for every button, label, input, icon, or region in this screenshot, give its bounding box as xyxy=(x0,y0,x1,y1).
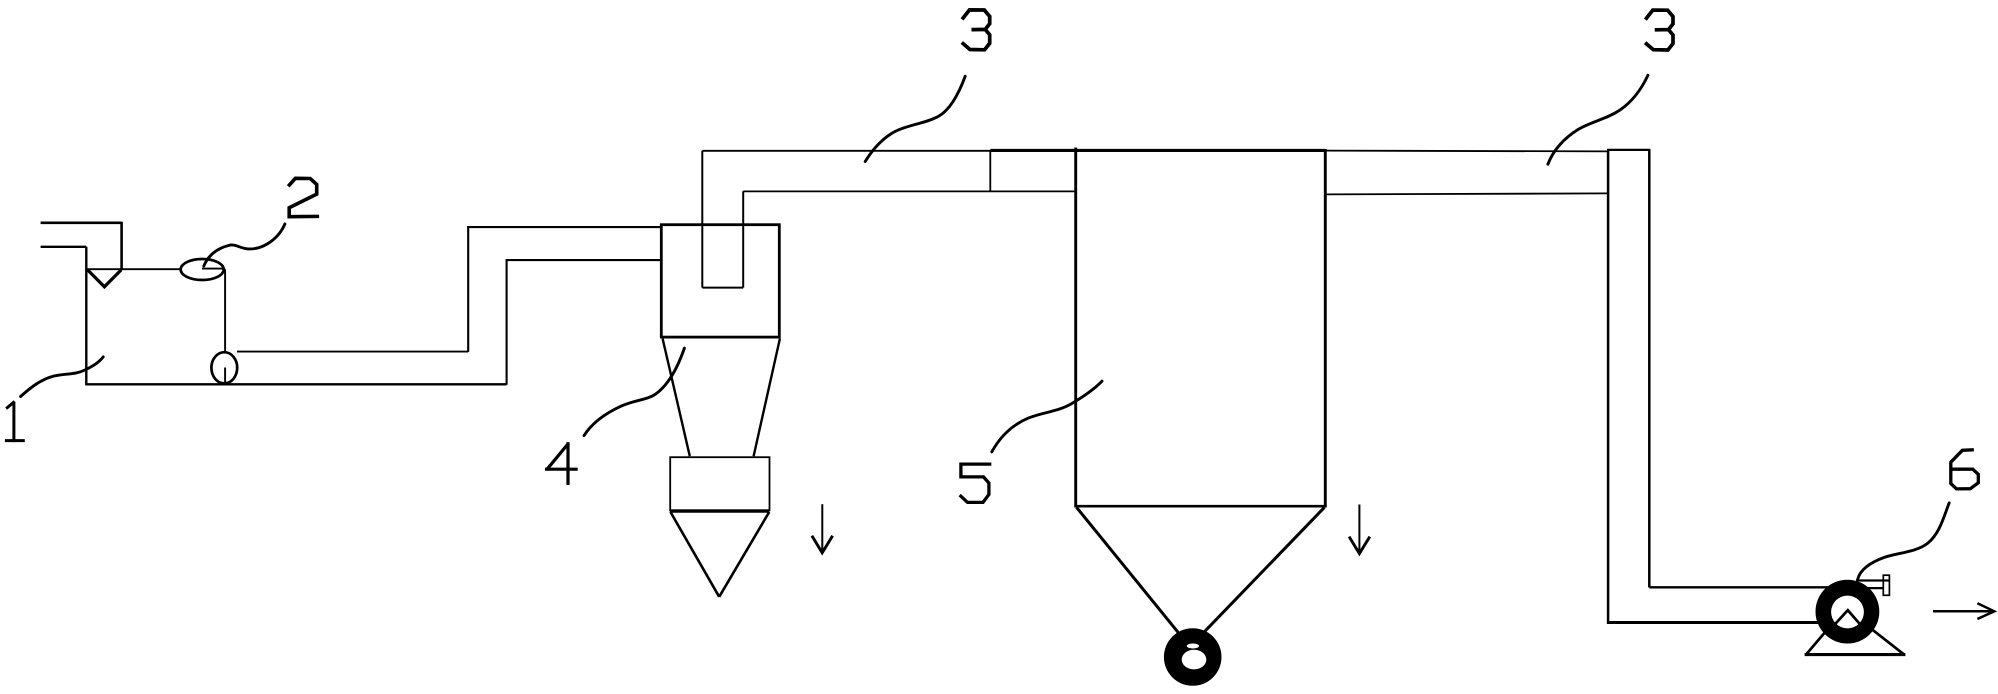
leader line for 4 xyxy=(584,348,684,436)
valve ellipse 2 on box top xyxy=(181,259,224,280)
leader line for second 3 xyxy=(1548,75,1648,164)
label 3 (second) xyxy=(1647,10,1674,50)
label 5 xyxy=(961,464,990,502)
pipe 3 top line xyxy=(237,351,468,353)
fan 6 body xyxy=(1816,580,1880,644)
cyclone cone left xyxy=(663,339,690,457)
label 1 xyxy=(6,402,23,440)
leader line for 5 xyxy=(992,381,1102,452)
rotary valve wheel under hopper xyxy=(1164,628,1222,686)
fan base left slant xyxy=(1806,617,1838,655)
leader line for 6 xyxy=(1858,503,1949,579)
cyclone vortex tube bottom cap xyxy=(702,287,743,289)
cyclone vortex tube left xyxy=(701,151,703,288)
duct 3 top line baghouse to riser xyxy=(1326,150,1609,153)
duct 3 bottom line cyclone to baghouse xyxy=(743,190,1074,192)
bottom wire: box bottom + pipe 3 bottom line xyxy=(85,383,506,385)
riser inner top horizontal xyxy=(506,259,661,261)
cyclone cone right xyxy=(754,339,780,457)
inlet elbow top line xyxy=(41,222,122,225)
leader line for first 3 xyxy=(865,76,965,161)
label 3 (first) xyxy=(963,10,990,50)
fan base right slant xyxy=(1860,620,1904,655)
label 4 xyxy=(547,444,577,484)
right riser top cap xyxy=(1607,149,1650,151)
cyclone vortex tube right xyxy=(742,191,744,287)
exit arrow xyxy=(1933,603,1994,619)
fan outlet stub bottom line xyxy=(1857,587,1883,589)
hopper right slant xyxy=(1204,507,1325,632)
baghouse 5 right edge xyxy=(1324,149,1327,506)
cyclone discharge triangle xyxy=(670,512,770,597)
baghouse 5 bottom edge xyxy=(1074,505,1326,508)
feed box 1 top edge xyxy=(86,268,225,270)
duct 3 top line cyclone to flange xyxy=(702,150,990,152)
fan outlet stub top line xyxy=(1856,579,1890,581)
cyclone collection box xyxy=(670,457,769,510)
riser outer top horizontal xyxy=(467,226,661,228)
duct 3 bottom line baghouse to riser xyxy=(1326,193,1609,194)
leader line for 2 xyxy=(204,224,285,266)
leader line for 1 xyxy=(21,357,104,397)
cyclone 4 body xyxy=(661,225,779,337)
fan base bottom xyxy=(1805,653,1906,656)
right riser left vertical xyxy=(1607,150,1610,623)
hopper left slant xyxy=(1077,507,1181,635)
label 6 xyxy=(1951,450,1979,489)
feed box 1 left edge xyxy=(85,247,87,385)
bottom duct top line to fan xyxy=(1649,586,1830,588)
riser inner vertical xyxy=(506,259,508,385)
inlet elbow right vertical xyxy=(120,222,123,270)
feed box 1 right edge xyxy=(224,269,226,351)
right riser right vertical xyxy=(1648,150,1651,588)
inlet elbow lower line xyxy=(41,246,87,248)
V funnel mark inside box xyxy=(88,270,122,287)
baghouse 5 top edge (thick, extends left over duct) xyxy=(990,149,1325,152)
label 2 xyxy=(289,178,317,216)
outlet flange xyxy=(1883,575,1889,595)
junction oval on box outlet xyxy=(211,352,237,383)
riser outer vertical xyxy=(467,226,469,352)
bottom duct bottom line to fan xyxy=(1607,621,1847,624)
flange joint xyxy=(989,151,991,192)
down arrow near baghouse xyxy=(1349,505,1370,554)
baghouse 5 left edge xyxy=(1074,148,1077,507)
down arrow near cyclone xyxy=(812,504,833,553)
